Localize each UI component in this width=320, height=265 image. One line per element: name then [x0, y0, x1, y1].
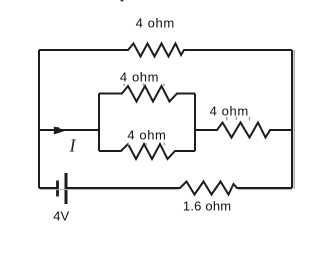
svg-text:I: I: [69, 136, 77, 156]
svg-text:4 ohm: 4 ohm: [210, 104, 249, 119]
svg-text:4 ohm: 4 ohm: [136, 15, 175, 30]
svg-text:4 ohm: 4 ohm: [127, 128, 166, 143]
svg-text:4V: 4V: [53, 209, 69, 224]
svg-text:4 ohm: 4 ohm: [120, 70, 159, 85]
svg-text:1.6 ohm: 1.6 ohm: [183, 199, 231, 214]
